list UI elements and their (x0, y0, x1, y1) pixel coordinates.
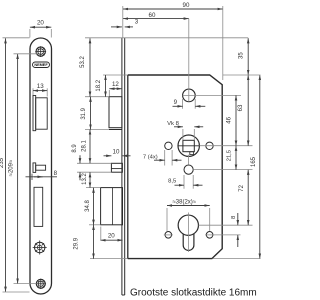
svg-text:7 (4x): 7 (4x) (143, 154, 158, 160)
svg-text:60: 60 (149, 12, 156, 19)
svg-text:18.2: 18.2 (96, 79, 102, 91)
svg-text:53.2: 53.2 (80, 56, 86, 68)
svg-text:9: 9 (174, 99, 178, 106)
svg-text:90: 90 (183, 2, 190, 9)
svg-text:Grootste slotkastdikte 16mm: Grootste slotkastdikte 16mm (130, 288, 257, 299)
svg-text:31.9: 31.9 (81, 107, 87, 119)
svg-text:10: 10 (113, 149, 120, 156)
svg-text:13.2: 13.2 (82, 173, 88, 185)
svg-text:46: 46 (227, 116, 233, 123)
svg-text:235: 235 (0, 157, 5, 168)
svg-text:28.1: 28.1 (82, 140, 88, 152)
svg-text:20: 20 (108, 232, 115, 239)
svg-text:13: 13 (37, 83, 44, 90)
svg-text:8,5: 8,5 (168, 178, 177, 184)
svg-text:8: 8 (54, 170, 58, 177)
svg-text:165: 165 (251, 156, 257, 167)
svg-text:8.9: 8.9 (72, 144, 78, 153)
svg-text:63: 63 (238, 104, 244, 111)
svg-text:20: 20 (37, 20, 44, 27)
svg-text:35: 35 (238, 52, 244, 59)
svg-text:21,5: 21,5 (227, 150, 233, 161)
svg-text:12: 12 (112, 81, 119, 88)
svg-text:34.8: 34.8 (85, 200, 91, 212)
svg-text:≈209≈: ≈209≈ (9, 159, 15, 176)
svg-text:3: 3 (135, 19, 139, 26)
svg-text:29.9: 29.9 (74, 237, 80, 249)
svg-text:72: 72 (239, 184, 245, 191)
svg-text:≈38(2x)≈: ≈38(2x)≈ (173, 199, 197, 205)
svg-text:Vk 8: Vk 8 (167, 121, 180, 127)
svg-text:NEMEF: NEMEF (34, 63, 48, 67)
